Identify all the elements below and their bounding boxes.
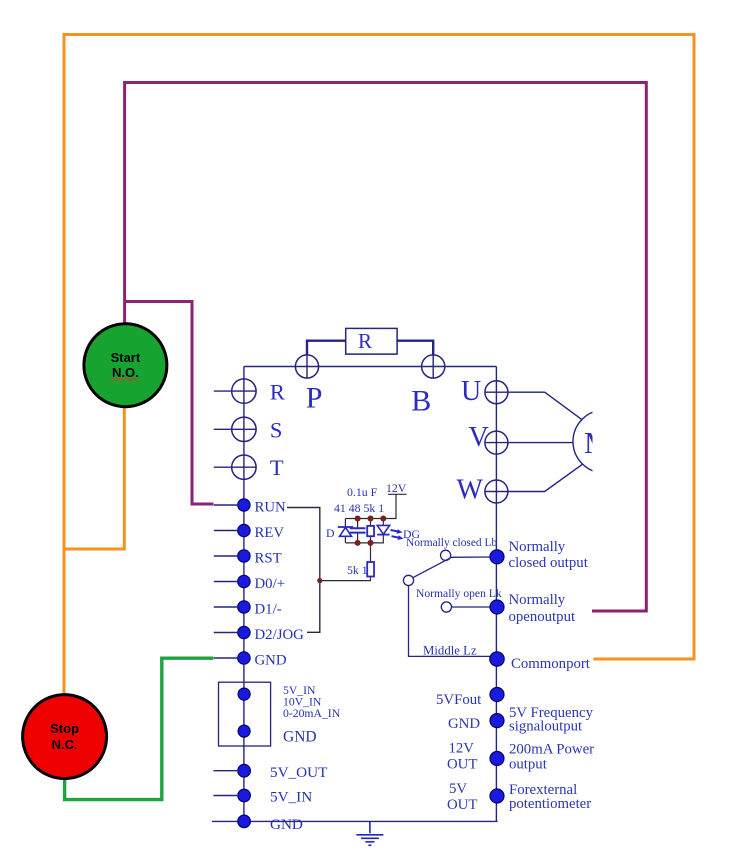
svg-text:D: D xyxy=(326,526,335,540)
svg-text:signaloutput: signaloutput xyxy=(509,719,583,735)
svg-text:12V: 12V xyxy=(386,481,407,495)
svg-text:D2/JOG: D2/JOG xyxy=(255,627,305,643)
svg-text:closed output: closed output xyxy=(509,555,589,571)
svg-text:RUN: RUN xyxy=(255,500,287,516)
svg-text:Start: Start xyxy=(111,350,141,365)
svg-text:OUT: OUT xyxy=(447,797,477,813)
svg-text:S: S xyxy=(270,417,283,442)
svg-text:41 48 5k 1: 41 48 5k 1 xyxy=(334,501,384,515)
svg-text:U: U xyxy=(461,376,481,407)
svg-text:potentiometer: potentiometer xyxy=(509,796,591,812)
svg-text:P: P xyxy=(306,382,323,415)
svg-text:0.1u F: 0.1u F xyxy=(347,485,378,499)
svg-text:N.C.: N.C. xyxy=(52,737,78,752)
svg-text:Middle Lz: Middle Lz xyxy=(423,644,477,658)
svg-text:Stop: Stop xyxy=(50,721,79,736)
svg-text:GND: GND xyxy=(255,653,287,669)
svg-text:OUT: OUT xyxy=(447,757,477,773)
svg-text:GND: GND xyxy=(270,816,303,833)
svg-text:RST: RST xyxy=(255,551,282,567)
svg-text:0-20mA_IN: 0-20mA_IN xyxy=(283,707,341,720)
svg-text:5VFout: 5VFout xyxy=(436,692,482,708)
svg-text:Commonport: Commonport xyxy=(511,656,591,672)
svg-text:openoutput: openoutput xyxy=(509,609,576,625)
svg-text:D1/-: D1/- xyxy=(255,602,282,618)
svg-text:REV: REV xyxy=(255,525,285,541)
svg-text:R: R xyxy=(358,329,372,353)
svg-text:5V: 5V xyxy=(449,781,467,797)
svg-text:5V_OUT: 5V_OUT xyxy=(270,764,328,781)
svg-text:V: V xyxy=(469,422,489,453)
svg-text:12V: 12V xyxy=(449,741,475,757)
svg-text:GND: GND xyxy=(448,716,480,732)
svg-text:5k 1: 5k 1 xyxy=(347,563,368,577)
svg-text:T: T xyxy=(270,455,284,480)
svg-text:M: M xyxy=(584,425,612,460)
svg-text:Normally: Normally xyxy=(509,539,566,555)
svg-text:5V_IN: 5V_IN xyxy=(270,789,312,806)
svg-text:W: W xyxy=(457,475,484,506)
svg-text:Normally open Lk: Normally open Lk xyxy=(416,587,502,600)
svg-text:R: R xyxy=(270,379,285,404)
svg-text:N.O.: N.O. xyxy=(112,365,139,380)
svg-text:B: B xyxy=(411,384,431,417)
svg-text:Normally closed Lb: Normally closed Lb xyxy=(406,537,497,549)
svg-text:D0/+: D0/+ xyxy=(255,576,286,592)
svg-text:GND: GND xyxy=(283,729,317,746)
svg-text:Normally: Normally xyxy=(509,592,566,608)
svg-text:200mA Power: 200mA Power xyxy=(509,742,594,758)
svg-text:output: output xyxy=(509,757,548,773)
